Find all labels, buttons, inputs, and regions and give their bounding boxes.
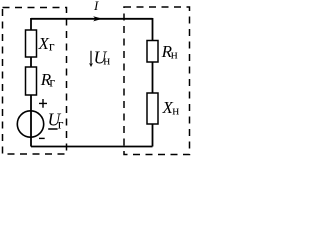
resistor Xn (load reactance)	[147, 93, 158, 124]
svg-text:г: г	[58, 118, 64, 133]
svg-text:г: г	[49, 76, 55, 91]
wire: load branch top stub	[152, 18, 154, 41]
svg-text:н: н	[172, 102, 179, 117]
svg-text:г: г	[49, 40, 55, 55]
resistor Xg (generator reactance)	[26, 30, 37, 57]
wire: between Xg and Rg	[30, 57, 32, 67]
wire: between Rn and Xn	[152, 62, 154, 93]
svg-text:X: X	[38, 34, 50, 53]
voltage source Ug (circle)	[17, 111, 43, 137]
plus sign (source polarity +)	[39, 99, 47, 108]
svg-text:н: н	[103, 53, 110, 68]
arrow Un (load voltage, pointing down)	[90, 51, 92, 64]
current arrowhead on top wire	[93, 16, 102, 21]
minus sign (source polarity -)	[39, 137, 45, 139]
svg-text:I: I	[93, 0, 99, 13]
wire: load branch bottom stub	[152, 124, 154, 147]
wire: Rg to bottom through source	[30, 95, 32, 147]
wire: bottom horizontal	[31, 146, 153, 148]
dashed box: generator (active two-terminal network)	[3, 8, 67, 155]
svg-text:н: н	[171, 46, 178, 61]
resistor Rn (load resistance)	[147, 41, 158, 63]
dashed box: load	[124, 7, 190, 155]
resistor Rg (generator resistance)	[26, 67, 37, 95]
wire: top horizontal from generator branch to load branch	[31, 18, 153, 20]
wire: left branch top stub	[30, 18, 32, 30]
